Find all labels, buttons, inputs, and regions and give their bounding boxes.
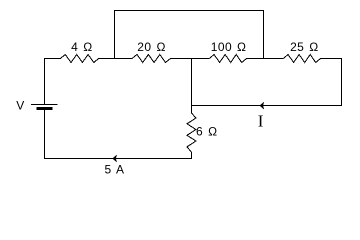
current arrow 5 A (pointing left) bbox=[113, 155, 117, 162]
wire: middle horizontal wire carrying current I bbox=[192, 105, 342, 107]
wire: main row segment left of 4 ohm bbox=[45, 58, 61, 60]
svg-text:I: I bbox=[258, 111, 264, 130]
svg-text:5 A: 5 A bbox=[105, 162, 125, 176]
wire: between 100 ohm and 25 ohm bbox=[247, 58, 284, 60]
resistor R4 25 ohm bbox=[283, 55, 320, 63]
resistor R5 6 ohm bbox=[187, 113, 196, 152]
resistor R1 4 ohm bbox=[60, 55, 98, 63]
svg-text:20 Ω: 20 Ω bbox=[137, 40, 166, 54]
resistor R2 20 ohm bbox=[132, 55, 170, 63]
wire: battery to bottom-left corner bbox=[44, 111, 46, 159]
svg-text:V: V bbox=[16, 98, 24, 112]
battery V (voltage source) bbox=[32, 104, 58, 106]
svg-text:4 Ω: 4 Ω bbox=[71, 40, 93, 54]
wire: bottom return wire bbox=[45, 158, 192, 160]
wire: top bypass loop over 20 ohm and 100 ohm bbox=[115, 11, 264, 59]
svg-text:100 Ω: 100 Ω bbox=[211, 40, 247, 54]
svg-text:6 Ω: 6 Ω bbox=[196, 125, 218, 139]
wire: between 4 ohm and 20 ohm bbox=[99, 58, 132, 60]
wire: between 20 ohm and 100 ohm bbox=[170, 58, 209, 60]
resistor R3 100 ohm bbox=[209, 55, 246, 63]
wire: 6 ohm to bottom wire bbox=[191, 152, 193, 158]
wire: left branch from node A down to battery bbox=[44, 59, 46, 105]
current arrow I (pointing left) bbox=[260, 102, 264, 109]
wire: main row segment right of 25 ohm bbox=[321, 58, 342, 60]
svg-text:25 Ω: 25 Ω bbox=[290, 40, 319, 54]
wire: middle branch upper segment (node B down to mid tap) bbox=[191, 59, 193, 114]
wire: right vertical wire bbox=[341, 59, 343, 106]
